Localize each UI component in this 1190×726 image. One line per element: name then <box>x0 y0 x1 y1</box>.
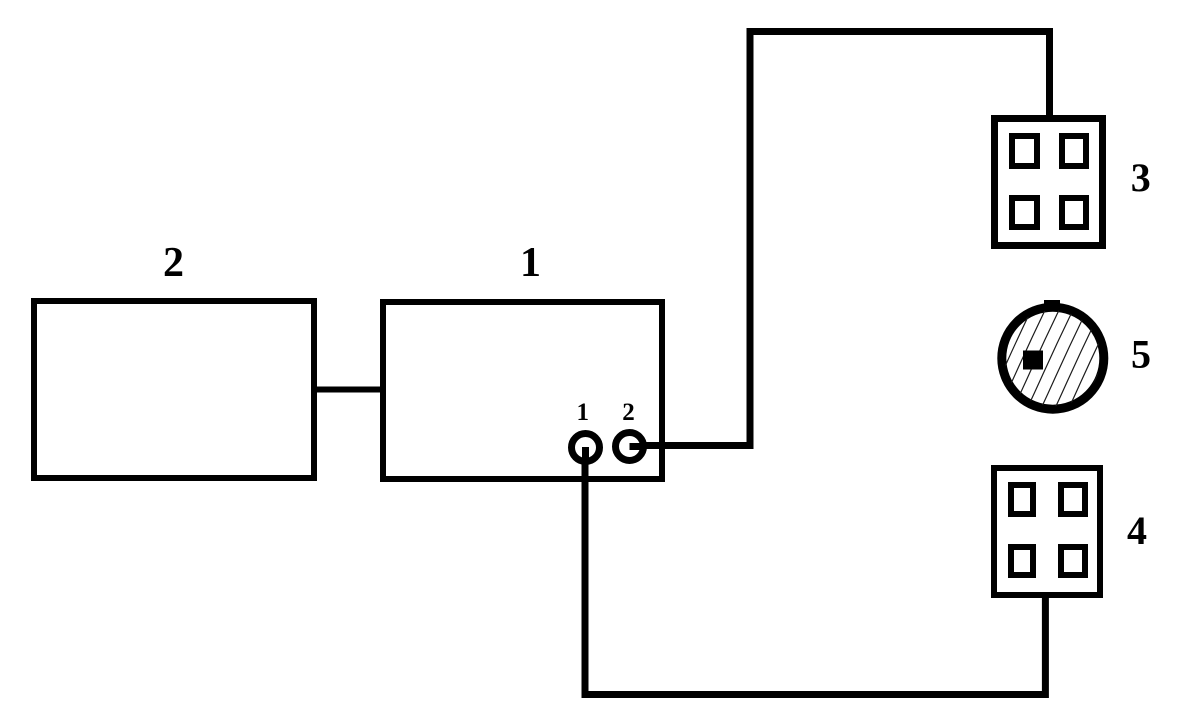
svg-text:1: 1 <box>577 399 590 426</box>
svg-text:1: 1 <box>520 240 541 286</box>
svg-text:4: 4 <box>1127 508 1147 553</box>
svg-text:2: 2 <box>163 240 184 286</box>
svg-text:2: 2 <box>622 399 635 426</box>
svg-text:3: 3 <box>1131 155 1151 200</box>
svg-text:5: 5 <box>1131 332 1151 377</box>
